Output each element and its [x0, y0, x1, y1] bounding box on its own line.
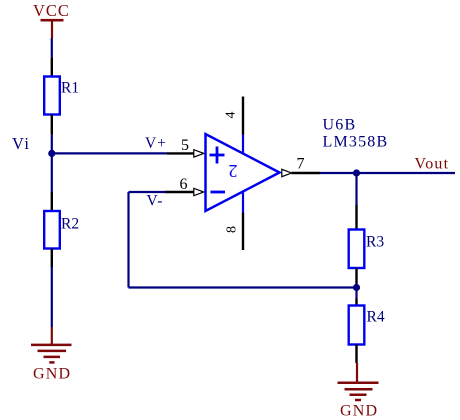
- svg-text:V-: V-: [147, 193, 164, 210]
- svg-text:5: 5: [181, 137, 189, 154]
- wire junction to R3: [355, 173, 357, 205]
- wire node Vi to op-amp pin 5: [52, 152, 167, 154]
- ground GND right: [338, 363, 379, 420]
- resistor R4: [349, 299, 385, 364]
- svg-text:Vout: Vout: [415, 156, 450, 173]
- ground GND left: [31, 327, 72, 383]
- wire VCC to R1: [51, 38, 53, 58]
- resistor R3: [349, 205, 385, 284]
- svg-text:V+: V+: [145, 135, 167, 152]
- svg-text:R2: R2: [61, 216, 79, 233]
- svg-text:R1: R1: [61, 80, 79, 97]
- node junction output: [353, 169, 360, 176]
- op-amp U6B pin 7 (output): [282, 156, 320, 177]
- node A (feedback junction): [353, 284, 360, 291]
- svg-text:6: 6: [180, 176, 188, 193]
- op-amp U6B pin 4 (V+ supply): [224, 97, 244, 155]
- op-amp U6B pin 8 (V- supply): [225, 193, 244, 251]
- wire op-amp pin 6 to feedback (vertical): [129, 192, 166, 288]
- resistor R1: [44, 58, 79, 134]
- svg-text:4: 4: [224, 112, 239, 119]
- wire feedback bottom to node A: [129, 286, 357, 288]
- svg-text:GND: GND: [33, 366, 71, 383]
- node Vi: [12, 134, 55, 157]
- wire node A to R4: [355, 288, 357, 299]
- svg-text:R4: R4: [367, 309, 385, 326]
- power symbol VCC: [33, 1, 70, 38]
- svg-text:U6B: U6B: [323, 117, 357, 134]
- resistor R2: [44, 192, 79, 267]
- svg-text:VCC: VCC: [33, 1, 70, 20]
- wire R2 to GND: [51, 267, 53, 327]
- svg-text:2: 2: [229, 161, 238, 181]
- op-amp U6B pin 6: [165, 176, 204, 196]
- svg-text:R3: R3: [366, 234, 384, 251]
- svg-text:Vi: Vi: [12, 134, 31, 153]
- op-amp U6B: [206, 134, 280, 211]
- wire R3 to node A: [355, 284, 357, 288]
- wire R1 to node Vi: [51, 134, 53, 192]
- svg-text:8: 8: [225, 226, 240, 233]
- op-amp U6B pin 5: [167, 137, 204, 157]
- svg-text:GND: GND: [340, 403, 378, 420]
- svg-text:7: 7: [297, 156, 305, 173]
- wire pin 7 to Vout: [320, 172, 455, 174]
- svg-text:LM358B: LM358B: [323, 134, 389, 151]
